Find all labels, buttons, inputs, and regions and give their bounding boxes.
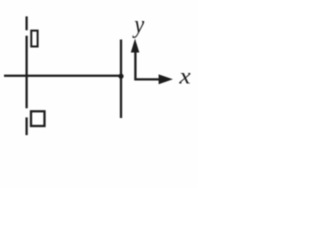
node: junction dot (118, 74, 123, 79)
wire: right screen line (120, 40, 122, 119)
y-axis arrowhead (131, 39, 140, 53)
wire: left plane main segment (25, 36, 27, 109)
x-axis arrowhead (159, 74, 173, 84)
svg-text:x: x (178, 63, 191, 89)
svg-text:y: y (132, 11, 144, 39)
y-axis shaft (135, 52, 159, 80)
small rectangle (upper element) (31, 31, 37, 47)
square (lower element) (31, 111, 45, 126)
wire: left plane bottom dash (25, 117, 27, 135)
wire: horizontal axis line (4, 75, 121, 77)
wire: left plane top dash (25, 16, 27, 30)
